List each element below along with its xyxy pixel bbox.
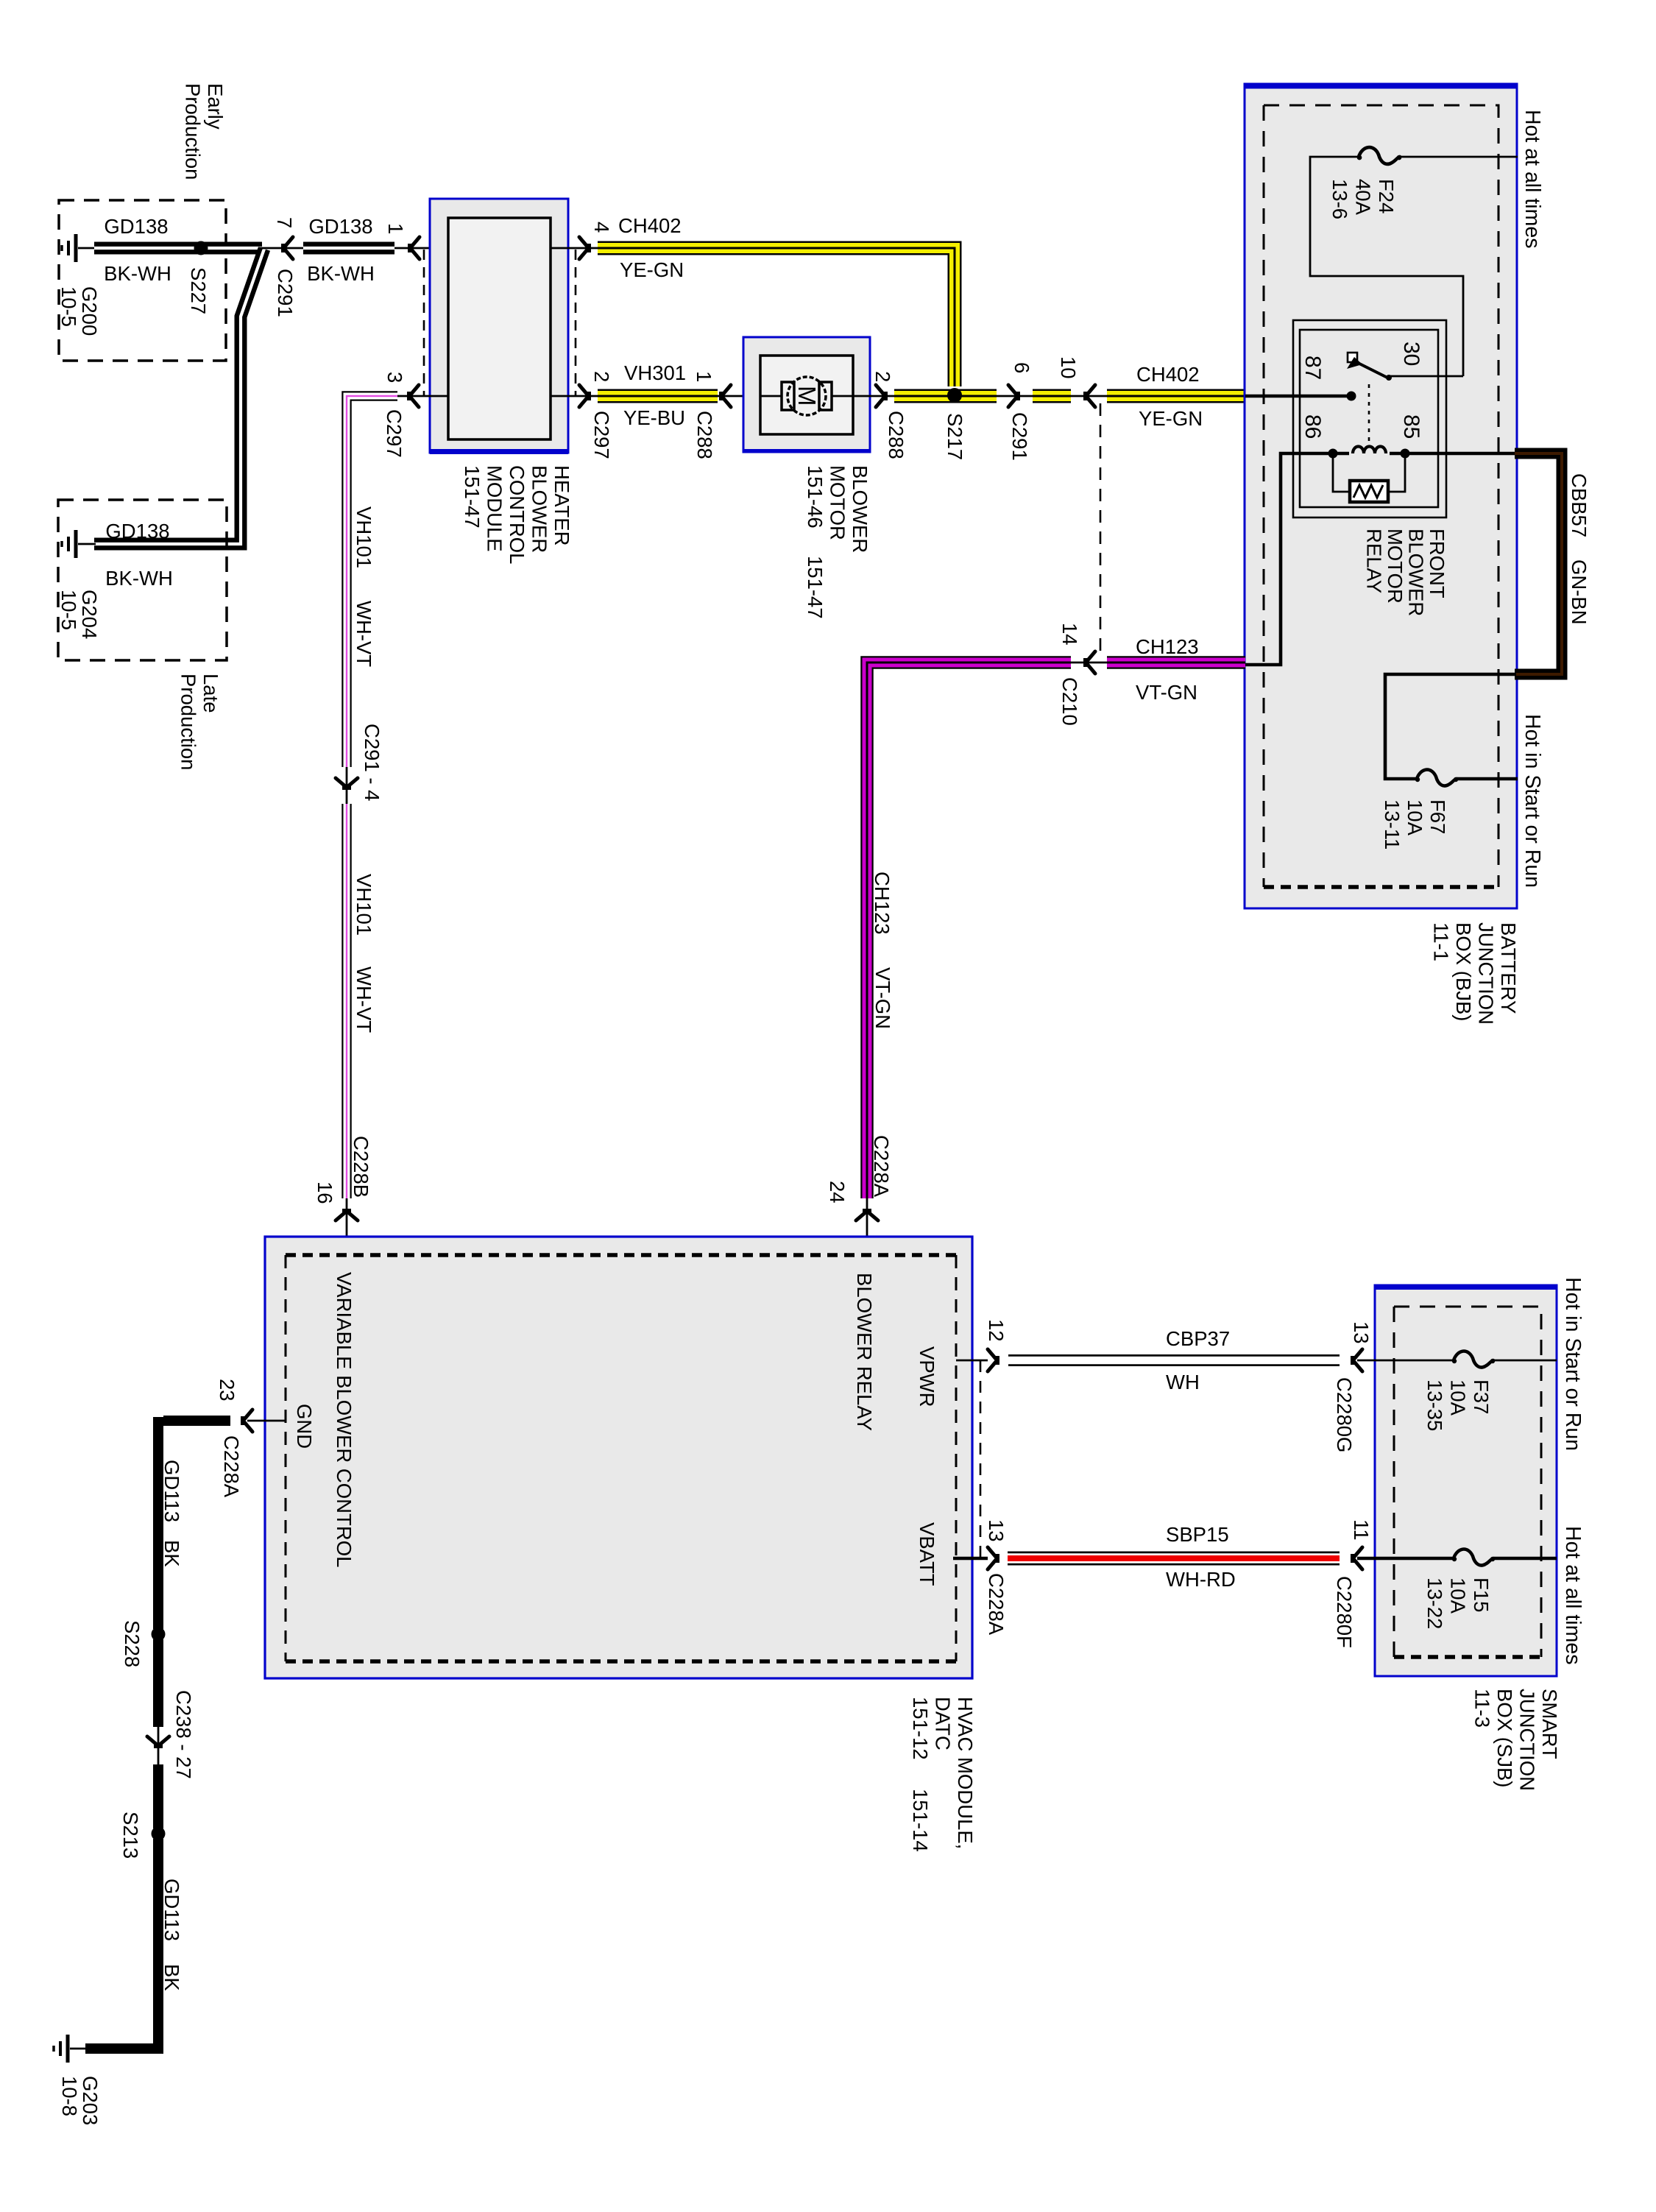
- svg-text:BLOWER: BLOWER: [849, 465, 871, 553]
- svg-text:MOTOR: MOTOR: [827, 465, 849, 540]
- svg-text:G200: G200: [78, 286, 101, 336]
- dashed link C291 to C210: [1100, 403, 1102, 657]
- svg-text:2: 2: [871, 371, 894, 382]
- wire VH101 WH-VT upper: [347, 396, 397, 767]
- svg-text:G203: G203: [79, 2076, 102, 2125]
- svg-text:C228A: C228A: [870, 1135, 893, 1198]
- svg-text:10A: 10A: [1404, 799, 1426, 836]
- relay pin 30 wire: [1389, 375, 1463, 378]
- svg-text:151-14: 151-14: [909, 1789, 932, 1852]
- connector arrow C210 pin 14: [1083, 651, 1095, 674]
- svg-text:151-12: 151-12: [909, 1697, 932, 1760]
- connector C291 pin 7 arrow: [281, 237, 293, 259]
- wire CH402 YE-GN from module pin 4: [598, 248, 955, 386]
- svg-text:6: 6: [1011, 362, 1033, 373]
- svg-text:10-8: 10-8: [58, 2076, 81, 2116]
- svg-text:G204: G204: [78, 590, 101, 639]
- svg-text:Late: Late: [199, 674, 222, 713]
- svg-text:13-11: 13-11: [1381, 799, 1404, 849]
- fuse F24 circuit wires: [1310, 157, 1518, 376]
- wire thin into module pin 1: [394, 247, 448, 250]
- svg-text:Early: Early: [204, 83, 227, 130]
- wire VH301 YE-BU: [598, 389, 718, 403]
- svg-text:GN-BN: GN-BN: [1568, 559, 1590, 625]
- svg-text:Production: Production: [177, 674, 200, 770]
- svg-text:BK: BK: [160, 1540, 183, 1567]
- svg-text:CONTROL: CONTROL: [506, 465, 528, 564]
- relay switch fixed contact: [1348, 353, 1357, 362]
- svg-text:WH-VT: WH-VT: [353, 967, 375, 1033]
- svg-text:VBATT: VBATT: [916, 1522, 938, 1586]
- svg-text:BK-WH: BK-WH: [105, 567, 173, 590]
- connector arrow motor pin 2: [876, 385, 888, 407]
- wire SBP15 WH-RD: [1008, 1552, 1340, 1566]
- fuse F24: [1357, 147, 1402, 164]
- svg-text:BOX (BJB): BOX (BJB): [1452, 922, 1475, 1021]
- wire CH123 VT-GN: [867, 662, 1071, 1198]
- relay coil: [1245, 453, 1518, 665]
- wire branch to late production ground: [94, 249, 264, 544]
- connector arrow module pin 2: [579, 385, 591, 407]
- svg-text:GD113: GD113: [160, 1879, 183, 1941]
- svg-text:2: 2: [590, 371, 613, 382]
- svg-text:HVAC MODULE,: HVAC MODULE,: [954, 1697, 977, 1849]
- svg-text:S217: S217: [944, 413, 966, 460]
- svg-text:VH101: VH101: [353, 874, 375, 936]
- svg-text:Hot in Start or Run: Hot in Start or Run: [1521, 714, 1544, 888]
- svg-text:GD138: GD138: [308, 215, 372, 238]
- connector arrow C2280F pin 11: [1351, 1547, 1362, 1569]
- wire VH101 WH-VT lower: [342, 804, 352, 1198]
- svg-text:CH402: CH402: [618, 214, 682, 237]
- motor symbol M circle: [788, 377, 826, 415]
- wire GD138 to module: [303, 242, 394, 255]
- svg-text:14: 14: [1058, 623, 1081, 646]
- svg-text:MOTOR: MOTOR: [1384, 529, 1406, 604]
- relay switch contact wedge: [1347, 357, 1362, 369]
- svg-text:VPWR: VPWR: [916, 1346, 938, 1407]
- svg-text:F15: F15: [1470, 1577, 1493, 1612]
- svg-text:7: 7: [273, 217, 296, 228]
- svg-text:C228A: C228A: [985, 1573, 1008, 1636]
- svg-text:GND: GND: [293, 1404, 316, 1449]
- svg-text:87: 87: [1301, 356, 1325, 380]
- wire VPWR pin 12: [956, 1360, 988, 1362]
- splice S227: [194, 241, 208, 255]
- svg-text:YE-GN: YE-GN: [1139, 407, 1203, 430]
- wire thin through motor: [760, 395, 853, 397]
- wire CBB57 GN-BN: [1515, 453, 1562, 674]
- blower motor box: [743, 337, 870, 452]
- svg-text:BLOWER RELAY: BLOWER RELAY: [853, 1273, 876, 1431]
- svg-text:RELAY: RELAY: [1363, 529, 1386, 593]
- big box dashed border sides: [286, 1255, 956, 1661]
- svg-text:JUNCTION: JUNCTION: [1475, 922, 1498, 1025]
- wire CH123 VT-GN to BJB: [1107, 656, 1245, 669]
- wire GD113 below S228: [153, 1639, 163, 1727]
- svg-text:C291: C291: [274, 269, 297, 317]
- svg-text:C297: C297: [590, 411, 613, 459]
- svg-text:GD138: GD138: [105, 520, 169, 543]
- connector arrow pin 6: [1008, 385, 1020, 407]
- svg-text:VARIABLE BLOWER CONTROL: VARIABLE BLOWER CONTROL: [333, 1272, 355, 1567]
- wire YE-GN motor to S217: [894, 389, 997, 403]
- svg-text:JUNCTION: JUNCTION: [1516, 1689, 1539, 1791]
- svg-text:CH123: CH123: [1136, 635, 1199, 658]
- svg-text:10A: 10A: [1447, 1379, 1470, 1416]
- wire thin at C291 pin 7: [259, 247, 303, 250]
- svg-text:FRONT: FRONT: [1426, 529, 1448, 598]
- svg-text:1: 1: [384, 223, 407, 234]
- svg-text:C238 - 27: C238 - 27: [172, 1690, 195, 1779]
- ground G203: [66, 2035, 70, 2063]
- svg-text:Production: Production: [182, 83, 205, 180]
- svg-text:11-1: 11-1: [1430, 922, 1453, 961]
- connector arrow C238 - 27: [147, 1736, 169, 1748]
- svg-text:SMART: SMART: [1538, 1689, 1561, 1759]
- svg-text:86: 86: [1301, 414, 1325, 439]
- svg-text:F24: F24: [1375, 179, 1398, 213]
- fuse F15: [1452, 1550, 1495, 1566]
- wire F67 internal: [1385, 674, 1518, 779]
- connector arrow C2280G pin 13: [1351, 1349, 1362, 1371]
- svg-text:HEATER: HEATER: [551, 465, 573, 546]
- svg-text:GD138: GD138: [104, 215, 168, 238]
- connector arrow C228A pin 24: [866, 1198, 868, 1255]
- variable blower control box: [265, 1237, 972, 1678]
- svg-text:VH301: VH301: [624, 361, 686, 384]
- svg-text:Hot at all times: Hot at all times: [1561, 1526, 1585, 1664]
- ground G204: [74, 530, 78, 558]
- svg-text:C291 - 4: C291 - 4: [361, 724, 383, 801]
- splice S217: [947, 388, 962, 403]
- svg-text:C291: C291: [1008, 412, 1031, 461]
- wire thin module pin 2: [551, 395, 598, 397]
- svg-text:C2280F: C2280F: [1333, 1576, 1356, 1648]
- svg-text:CH123: CH123: [871, 872, 894, 935]
- wire GD138 early production: [94, 242, 262, 255]
- connector arrow module pin 3: [407, 385, 419, 407]
- battery junction box BJB: [1245, 84, 1517, 908]
- svg-text:CBP37: CBP37: [1166, 1327, 1230, 1350]
- svg-text:Hot at all times: Hot at all times: [1521, 110, 1544, 248]
- wire F15: [1357, 1557, 1557, 1561]
- splice S228: [152, 1628, 166, 1642]
- svg-text:YE-BU: YE-BU: [623, 406, 685, 429]
- connector arrow C291 pin 4: [336, 778, 358, 790]
- wire thin inline connector C291 6-10: [997, 395, 1107, 397]
- svg-text:M: M: [793, 386, 821, 406]
- dashed connector C297 right: [575, 250, 577, 396]
- late production group dashed box: [58, 500, 227, 660]
- motor inner rect: [760, 356, 853, 434]
- connector arrow module pin 1: [408, 237, 420, 259]
- svg-text:WH-RD: WH-RD: [1166, 1568, 1236, 1591]
- wire thin module pin 4: [551, 247, 598, 250]
- svg-text:C228B: C228B: [350, 1136, 372, 1198]
- connector arrow pin 10: [1083, 385, 1095, 407]
- smart junction box SJB: [1375, 1285, 1557, 1676]
- svg-text:VH101: VH101: [353, 506, 375, 568]
- svg-text:C2280G: C2280G: [1333, 1377, 1356, 1452]
- svg-text:F37: F37: [1470, 1379, 1493, 1414]
- svg-text:1: 1: [693, 371, 715, 382]
- SJB dashed border: [1394, 1307, 1541, 1657]
- wire F37: [1357, 1360, 1557, 1362]
- wire GND pin 23: [247, 1420, 286, 1422]
- big box dashed border top/bottom: [286, 1255, 956, 1661]
- wire GD113 to S213: [153, 1764, 163, 1828]
- wire CH402 YE-GN to BJB: [1107, 389, 1245, 403]
- svg-text:13: 13: [985, 1519, 1008, 1542]
- svg-text:C228A: C228A: [220, 1435, 243, 1498]
- svg-text:13-35: 13-35: [1423, 1379, 1446, 1431]
- svg-text:10-5: 10-5: [57, 590, 80, 630]
- early production group dashed box: [59, 200, 226, 361]
- svg-text:BLOWER: BLOWER: [528, 465, 551, 553]
- svg-text:S213: S213: [119, 1812, 142, 1859]
- wire VBATT pin 13: [953, 1557, 988, 1561]
- svg-text:151-46: 151-46: [804, 465, 827, 529]
- connector arrow motor pin 1: [719, 385, 731, 407]
- svg-text:C288: C288: [693, 411, 716, 459]
- relay actuator dashed: [1368, 384, 1370, 448]
- wire GD113 BK to G203: [85, 1839, 158, 2049]
- svg-text:40A: 40A: [1352, 179, 1375, 216]
- ground G200: [74, 234, 78, 262]
- svg-text:24: 24: [826, 1181, 849, 1204]
- svg-text:16: 16: [314, 1181, 336, 1204]
- svg-text:DATC: DATC: [932, 1697, 955, 1750]
- svg-text:4: 4: [590, 222, 613, 233]
- splice S213: [152, 1827, 166, 1841]
- svg-text:11: 11: [1350, 1519, 1373, 1541]
- svg-text:10A: 10A: [1447, 1577, 1470, 1614]
- svg-text:S227: S227: [187, 267, 210, 314]
- svg-text:10-5: 10-5: [57, 286, 80, 327]
- svg-text:S228: S228: [121, 1620, 144, 1667]
- relay switch arm: [1356, 362, 1389, 378]
- svg-text:85: 85: [1399, 414, 1423, 439]
- svg-text:13: 13: [1350, 1321, 1373, 1344]
- svg-text:151-47: 151-47: [461, 465, 484, 529]
- svg-text:YE-GN: YE-GN: [620, 258, 684, 281]
- svg-text:VT-GN: VT-GN: [871, 967, 894, 1029]
- wire CBP37 WH: [1008, 1354, 1340, 1366]
- fuse F67: [1415, 770, 1458, 786]
- svg-text:23: 23: [216, 1379, 238, 1402]
- svg-text:BK: BK: [160, 1964, 183, 1991]
- svg-text:13-6: 13-6: [1328, 179, 1351, 219]
- BJB dashed border: [1264, 105, 1498, 887]
- dashed link C228A pins: [980, 1360, 982, 1558]
- wire GD113 BK upper: [158, 1417, 230, 1629]
- svg-text:C210: C210: [1058, 677, 1081, 726]
- svg-text:151-47: 151-47: [804, 556, 827, 619]
- svg-text:C297: C297: [383, 409, 406, 458]
- svg-text:SBP15: SBP15: [1166, 1523, 1229, 1546]
- svg-text:BK-WH: BK-WH: [104, 262, 171, 285]
- svg-text:CH402: CH402: [1136, 363, 1200, 386]
- svg-text:WH: WH: [1166, 1371, 1200, 1393]
- svg-text:F67: F67: [1426, 799, 1449, 834]
- module inner rect: [448, 218, 551, 439]
- svg-text:BATTERY: BATTERY: [1497, 922, 1520, 1014]
- dashed connector C297 left: [423, 250, 425, 396]
- svg-text:WH-VT: WH-VT: [353, 601, 375, 667]
- wire thin module pin 3: [397, 395, 448, 397]
- svg-text:GD113: GD113: [160, 1460, 183, 1522]
- svg-text:10: 10: [1057, 356, 1080, 379]
- connector arrow module pin 4: [579, 237, 591, 259]
- svg-text:BK-WH: BK-WH: [307, 262, 375, 285]
- wire YE-GN between connectors: [1033, 389, 1071, 403]
- svg-text:BOX (SJB): BOX (SJB): [1493, 1689, 1516, 1787]
- relay outer box: [1293, 320, 1446, 517]
- connector arrow C228B pin 16: [346, 1198, 348, 1255]
- svg-text:13-22: 13-22: [1423, 1577, 1446, 1629]
- svg-text:3: 3: [383, 372, 406, 383]
- svg-text:CBB57: CBB57: [1568, 473, 1590, 537]
- relay pin 87 feed: [1245, 395, 1347, 398]
- module box heater blower control: [430, 199, 568, 453]
- svg-text:VT-GN: VT-GN: [1136, 681, 1197, 704]
- relay resistor: [1333, 453, 1405, 492]
- svg-text:MODULE: MODULE: [484, 465, 506, 552]
- svg-text:C288: C288: [885, 411, 907, 459]
- svg-text:12: 12: [985, 1319, 1008, 1342]
- wire thin motor pin 1: [718, 395, 760, 397]
- fuse F37: [1452, 1351, 1495, 1368]
- svg-text:11-3: 11-3: [1471, 1689, 1494, 1728]
- svg-text:BLOWER: BLOWER: [1405, 529, 1428, 616]
- svg-text:Hot in Start or Run: Hot in Start or Run: [1561, 1277, 1585, 1451]
- svg-text:30: 30: [1399, 342, 1423, 366]
- wire thin motor pin 2: [853, 395, 894, 397]
